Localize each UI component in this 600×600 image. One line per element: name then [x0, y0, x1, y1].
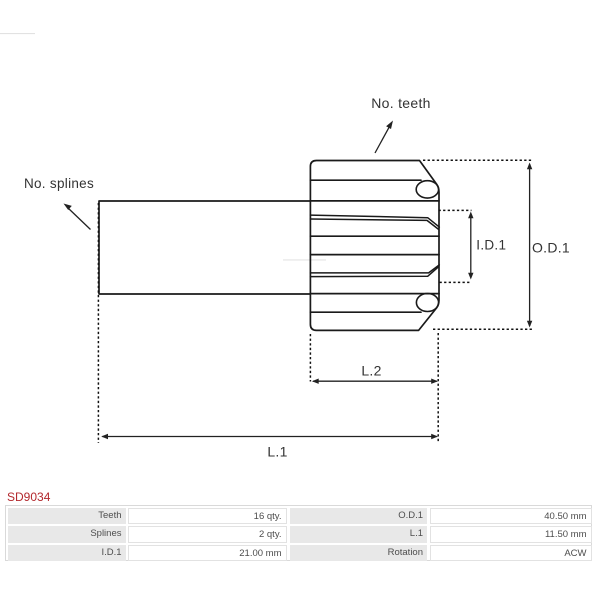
- svg-text:I.D.1: I.D.1: [476, 238, 506, 253]
- svg-text:L.2: L.2: [361, 363, 381, 379]
- svg-text:L.1: L.1: [267, 444, 287, 460]
- svg-text:O.D.1: O.D.1: [532, 240, 570, 256]
- svg-text:No. splines: No. splines: [24, 176, 94, 191]
- svg-text:No. teeth: No. teeth: [371, 95, 431, 111]
